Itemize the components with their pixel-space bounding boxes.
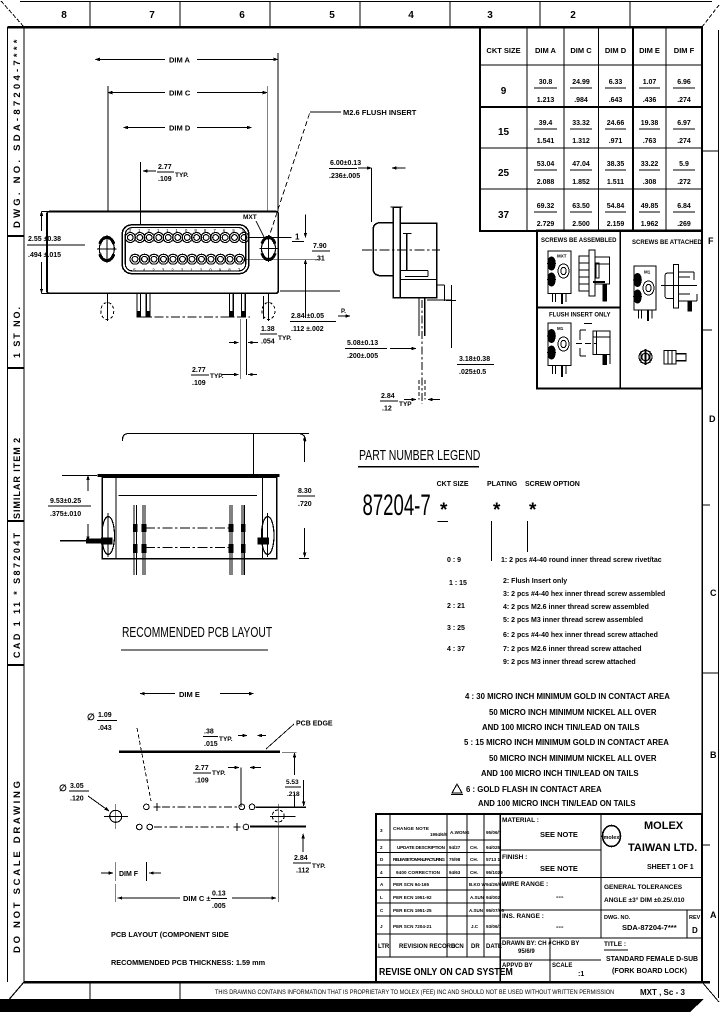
svg-text:M1: M1 <box>644 270 651 275</box>
svg-text:2.77: 2.77 <box>158 164 172 171</box>
svg-text:3.18±0.38: 3.18±0.38 <box>459 356 490 363</box>
svg-text:4: 2 pcs M2.6 inner thread scr: 4: 2 pcs M2.6 inner thread screw assembl… <box>503 604 649 611</box>
right small vertical dim <box>282 751 297 753</box>
svg-text:A: A <box>710 910 717 920</box>
screw option panels frame <box>537 231 702 389</box>
svg-text:2 : 21: 2 : 21 <box>447 603 465 610</box>
svg-text:MXT , Sc - 3: MXT , Sc - 3 <box>640 988 685 997</box>
svg-text:87204-7: 87204-7 <box>363 489 431 523</box>
svg-text:.120: .120 <box>70 796 84 803</box>
table header <box>486 46 694 55</box>
ins range box <box>500 937 702 939</box>
svg-text:47.04: 47.04 <box>572 161 590 168</box>
svg-text:B.KO W: B.KO W <box>469 882 487 887</box>
svg-text:.054: .054 <box>261 339 275 346</box>
svg-text:∅: ∅ <box>59 783 67 793</box>
svg-text:2.500: 2.500 <box>572 221 590 228</box>
title block frame <box>376 814 702 982</box>
svg-text:(FORK BOARD LOCK): (FORK BOARD LOCK) <box>612 966 688 975</box>
svg-text:1.511: 1.511 <box>607 179 624 186</box>
dim C pcb <box>115 884 117 902</box>
svg-text:.643: .643 <box>609 97 623 104</box>
bottom view body top <box>97 474 279 477</box>
svg-text:6: 6 <box>239 10 245 21</box>
right margin zone letters <box>708 236 717 920</box>
left mounting hole <box>97 235 117 263</box>
svg-text:DIM F: DIM F <box>674 46 695 55</box>
svg-text:F: F <box>708 236 714 246</box>
svg-text:DRAWN BY: CH #: DRAWN BY: CH # <box>502 941 552 947</box>
svg-text:8.30: 8.30 <box>298 488 312 495</box>
svg-text:2.088: 2.088 <box>537 179 555 186</box>
svg-text:PER ECN 1951-25: PER ECN 1951-25 <box>393 908 432 913</box>
svg-text:2: 2 <box>570 10 576 21</box>
svg-text:24.66: 24.66 <box>607 120 625 127</box>
right screw <box>261 517 274 555</box>
svg-text:.109: .109 <box>158 176 172 183</box>
svg-text:molex: molex <box>604 835 621 841</box>
bottom-right corner diagonal <box>702 982 719 1002</box>
svg-text:LTR: LTR <box>378 944 390 950</box>
revision table columns <box>390 814 500 982</box>
svg-text:DIM C: DIM C <box>570 46 592 55</box>
svg-text:A.SUN: A.SUN <box>470 895 484 900</box>
svg-text:APPVD BY: APPVD BY <box>502 963 533 969</box>
bottom black bar <box>0 999 704 1012</box>
svg-text:A.WONG: A.WONG <box>450 830 470 835</box>
fig flush insert side view <box>576 324 610 365</box>
bottom view center lines <box>145 527 232 529</box>
svg-text:STANDARD FEMALE D-SUB: STANDARD FEMALE D-SUB <box>606 954 698 963</box>
svg-text:DWG. NO.: DWG. NO. <box>604 915 631 921</box>
svg-text:.494 ±.015: .494 ±.015 <box>28 252 61 259</box>
svg-text:25: 25 <box>498 168 510 179</box>
right mounting hole <box>260 235 278 262</box>
svg-text:---: --- <box>556 922 564 931</box>
svg-text:L: L <box>380 895 383 900</box>
table row lines <box>480 64 702 66</box>
side view center line <box>362 249 440 251</box>
top-left corner diagonal <box>1 1 24 27</box>
top-right corner diagonal <box>702 5 719 27</box>
svg-text:TYP.: TYP. <box>210 373 224 380</box>
svg-text:2.77: 2.77 <box>192 367 206 374</box>
svg-text:1.07: 1.07 <box>643 79 657 86</box>
board lock lug <box>444 285 446 301</box>
svg-text:*: * <box>529 500 537 521</box>
dim E <box>140 693 175 695</box>
left margin section dividers <box>8 236 25 665</box>
side view contact <box>403 233 412 235</box>
svg-text:542322120987: 542322120987 <box>133 268 247 273</box>
svg-text:TYP.: TYP. <box>312 863 326 870</box>
svg-text:DO NOT SCALE DRAWING: DO NOT SCALE DRAWING <box>12 780 23 953</box>
svg-text:DIM C ±: DIM C ± <box>183 894 210 903</box>
svg-text:4 : 30 MICRO INCH MINIMUM GOLD: 4 : 30 MICRO INCH MINIMUM GOLD IN CONTAC… <box>465 692 670 701</box>
contacts row 1 <box>125 233 249 243</box>
svg-text:MXT: MXT <box>557 254 567 259</box>
svg-text:95/6/9: 95/6/9 <box>518 949 535 955</box>
bottom view body <box>102 477 276 559</box>
svg-text:3.05: 3.05 <box>70 783 84 790</box>
svg-text:SHEET 1 OF 1: SHEET 1 OF 1 <box>647 864 694 871</box>
svg-text:.984: .984 <box>574 97 588 104</box>
dim F <box>115 862 117 881</box>
finish box <box>500 877 702 879</box>
svg-text:7: 2 pcs M2.6 inner thread scr: 7: 2 pcs M2.6 inner thread screw attache… <box>503 646 642 653</box>
svg-text:0.13: 0.13 <box>212 891 226 898</box>
fig assembled end view <box>548 251 571 304</box>
svg-text:TYP.: TYP. <box>212 770 226 777</box>
svg-text:7.90: 7.90 <box>313 243 327 250</box>
svg-text:1994/6/9: 1994/6/9 <box>430 832 448 837</box>
svg-text:2.84 ±0.05: 2.84 ±0.05 <box>291 313 324 320</box>
DIM C dimension <box>108 92 165 94</box>
svg-text:19.38: 19.38 <box>641 120 659 127</box>
svg-text:.043: .043 <box>98 725 112 732</box>
dwg no box <box>686 910 688 938</box>
svg-text:.112: .112 <box>296 868 309 875</box>
svg-text:7: 7 <box>149 10 155 21</box>
svg-text:1 ST NO.: 1 ST NO. <box>12 306 22 358</box>
fig assembled side view <box>579 250 610 301</box>
svg-text:SCREWS BE ASSEMBLED: SCREWS BE ASSEMBLED <box>541 238 617 244</box>
svg-text:2.729: 2.729 <box>537 221 555 228</box>
svg-text:D: D <box>709 414 716 424</box>
svg-text:.272: .272 <box>677 179 691 186</box>
center line through pins <box>138 316 250 318</box>
svg-text:TYP.: TYP. <box>175 172 189 179</box>
revision rows text <box>380 826 504 929</box>
svg-text:RECOMMENDED PCB THICKNESS: 1.5: RECOMMENDED PCB THICKNESS: 1.59 mm <box>111 958 266 967</box>
svg-text:TYP.: TYP. <box>278 335 292 342</box>
svg-text:DIM D: DIM D <box>169 124 191 133</box>
dim 1.38 typ <box>239 319 241 347</box>
svg-text:.112 ±.002: .112 ±.002 <box>291 326 324 333</box>
svg-text:1: 1 <box>295 233 300 242</box>
svg-text:M2.6 FLUSH INSERT: M2.6 FLUSH INSERT <box>343 108 417 117</box>
svg-text:2.55 ±0.38: 2.55 ±0.38 <box>28 236 61 243</box>
dim 2.77 typ upper <box>140 162 142 225</box>
svg-text:.109: .109 <box>192 380 206 387</box>
svg-text:95/06/7: 95/06/7 <box>486 830 502 835</box>
svg-text:AND 100 MICRO INCH TIN/LEAD ON: AND 100 MICRO INCH TIN/LEAD ON TAILS <box>478 799 636 808</box>
svg-text:6.00±0.13: 6.00±0.13 <box>330 160 361 167</box>
svg-text:SEE NOTE: SEE NOTE <box>540 864 578 873</box>
pins below flange <box>137 293 245 317</box>
svg-text:DIM E: DIM E <box>639 46 660 55</box>
svg-text:33.32: 33.32 <box>572 120 590 127</box>
svg-text:1.213: 1.213 <box>537 97 555 104</box>
svg-text:SDA-87204-7***: SDA-87204-7*** <box>622 923 677 932</box>
svg-text:THIS DRAWING CONTAINS INFORMAT: THIS DRAWING CONTAINS INFORMATION THAT I… <box>215 990 614 996</box>
svg-text:.218: .218 <box>287 791 300 798</box>
top zone numbers <box>61 10 576 21</box>
svg-text:DIM F: DIM F <box>119 871 139 878</box>
bottom view pins <box>134 505 244 575</box>
svg-text:6: 2 pcs #4-40 hex inner threa: 6: 2 pcs #4-40 hex inner thread screw at… <box>503 632 658 639</box>
svg-text:CHANGE NOTE: CHANGE NOTE <box>393 826 429 831</box>
svg-text:PLATING: PLATING <box>487 481 518 488</box>
svg-text:PER SCN 94-165: PER SCN 94-165 <box>393 882 429 887</box>
svg-text:TYP: TYP <box>399 401 412 408</box>
svg-text:6 : GOLD FLASH IN CONTACT AREA: 6 : GOLD FLASH IN CONTACT AREA <box>466 785 602 794</box>
svg-text:2: Flush Insert only: 2: Flush Insert only <box>503 578 567 585</box>
fig flush insert end view <box>548 323 571 377</box>
svg-text:CKT SIZE: CKT SIZE <box>437 481 469 488</box>
table row 37 <box>498 203 691 228</box>
svg-text:MXT: MXT <box>243 214 257 221</box>
mating face bracket <box>123 434 306 442</box>
svg-text:2.159: 2.159 <box>607 221 625 228</box>
svg-text:SCREWS BE ATTACHED: SCREWS BE ATTACHED <box>632 240 703 246</box>
svg-text:50 MICRO INCH MINIMUM NICKEL A: 50 MICRO INCH MINIMUM NICKEL ALL OVER <box>489 708 657 717</box>
svg-text:6.97: 6.97 <box>677 120 691 127</box>
svg-text:3121110987654: 3121110987654 <box>129 228 252 233</box>
svg-text:2: 2 <box>380 845 383 850</box>
pcb edge line <box>119 751 280 753</box>
svg-text:.005: .005 <box>212 903 226 910</box>
dim 2.84 front <box>280 290 340 292</box>
svg-text:DIM D: DIM D <box>605 46 627 55</box>
svg-text:FINISH :: FINISH : <box>502 854 527 861</box>
svg-text:DR: DR <box>471 944 480 950</box>
svg-text:.269: .269 <box>677 221 691 228</box>
svg-text:SCREW OPTION: SCREW OPTION <box>525 481 580 488</box>
svg-text:.375±.010: .375±.010 <box>50 511 81 518</box>
table row 15 <box>498 120 691 145</box>
left mounting hole pcb <box>110 810 122 822</box>
svg-text:CHKD BY: CHKD BY <box>552 941 579 947</box>
hidden screws below mounting holes <box>101 293 275 321</box>
sheet border frame <box>7 27 9 982</box>
material box <box>500 849 601 851</box>
svg-text:SIMILAR ITEM 2: SIMILAR ITEM 2 <box>12 437 22 519</box>
svg-text:50 MICRO INCH MINIMUM NICKEL A: 50 MICRO INCH MINIMUM NICKEL ALL OVER <box>489 754 657 763</box>
svg-text:1.962: 1.962 <box>641 221 659 228</box>
svg-text:J: J <box>380 924 383 929</box>
svg-text:B: B <box>710 750 717 760</box>
small screw front <box>639 349 652 365</box>
svg-text:INS. RANGE :: INS. RANGE : <box>502 913 544 920</box>
side view flange plate <box>393 207 400 298</box>
dim 8.30 <box>299 433 309 435</box>
svg-text:9400 CORRECTION: 9400 CORRECTION <box>396 870 441 875</box>
ckt size list <box>447 557 467 653</box>
dim 2.84 typ pcb <box>302 834 304 852</box>
svg-text:C: C <box>710 588 717 598</box>
svg-text:3: 3 <box>487 10 493 21</box>
svg-text:2.84: 2.84 <box>381 393 395 400</box>
svg-text:5.08±0.13: 5.08±0.13 <box>347 340 378 347</box>
svg-text:CH.: CH. <box>470 870 478 875</box>
svg-text:TITLE :: TITLE : <box>604 941 626 948</box>
svg-text:33.22: 33.22 <box>641 161 659 168</box>
svg-text:3 : 25: 3 : 25 <box>447 625 465 632</box>
svg-text:DIM A: DIM A <box>535 46 557 55</box>
svg-text:PCB LAYOUT (COMPONENT SIDE: PCB LAYOUT (COMPONENT SIDE <box>111 930 229 939</box>
svg-text:MATERIAL :: MATERIAL : <box>502 817 539 824</box>
svg-text:.38: .38 <box>204 729 214 736</box>
DIM D dimension <box>123 127 165 129</box>
svg-text:CH.: CH. <box>470 857 478 862</box>
svg-text:CKT SIZE: CKT SIZE <box>486 46 520 55</box>
svg-text:93/06/1: 93/06/1 <box>486 924 502 929</box>
svg-text:63.50: 63.50 <box>572 203 590 210</box>
svg-text:49.85: 49.85 <box>641 203 659 210</box>
DIM A right extension line <box>277 53 279 212</box>
svg-text:1.38: 1.38 <box>261 326 275 333</box>
dim 2.77 typ lower <box>239 345 241 379</box>
svg-text:.200±.005: .200±.005 <box>347 353 378 360</box>
dimension table frame <box>480 27 702 231</box>
side view pin <box>418 298 420 337</box>
svg-text:6.96: 6.96 <box>677 79 691 86</box>
svg-text:MOLEX: MOLEX <box>644 820 684 832</box>
svg-text:DATE: DATE <box>486 944 502 950</box>
svg-text:.015: .015 <box>204 741 218 748</box>
contact 1 flag <box>249 236 292 238</box>
svg-text:0 : 9: 0 : 9 <box>447 557 461 564</box>
svg-text::1: :1 <box>578 971 584 978</box>
right mounting hole pcb <box>272 810 284 822</box>
svg-text:GENERAL TOLERANCES: GENERAL TOLERANCES <box>604 884 683 891</box>
svg-text:1.541: 1.541 <box>537 138 555 145</box>
svg-text:A.SUN: A.SUN <box>469 908 483 913</box>
svg-text:30.8: 30.8 <box>539 79 553 86</box>
table row 9 <box>501 79 691 104</box>
svg-text:5713 1: 5713 1 <box>486 857 500 862</box>
screw option list <box>501 557 665 666</box>
left screw <box>102 517 115 555</box>
svg-text:.31: .31 <box>315 256 325 263</box>
svg-text:*: * <box>493 500 501 521</box>
note triangle flag <box>452 784 462 793</box>
svg-text:1.852: 1.852 <box>572 179 590 186</box>
plating notes <box>464 692 670 808</box>
svg-text:.720: .720 <box>298 501 312 508</box>
svg-text:DIM E: DIM E <box>179 690 200 699</box>
svg-text:5: 5 <box>329 10 335 21</box>
svg-text:---: --- <box>556 892 564 901</box>
wire range box <box>500 909 702 911</box>
svg-text:9: 2 pcs M3 inner thread screw: 9: 2 pcs M3 inner thread screw attached <box>503 659 636 666</box>
side view body <box>400 223 436 297</box>
svg-text:1.09: 1.09 <box>98 712 112 719</box>
svg-text:94/27: 94/27 <box>449 845 461 850</box>
svg-text:9.53±0.25: 9.53±0.25 <box>50 498 81 505</box>
svg-text:37: 37 <box>498 210 510 221</box>
svg-text:69.32: 69.32 <box>537 203 555 210</box>
M2.6 flush insert callout <box>268 112 310 240</box>
svg-text:RECOMMENDED PCB LAYOUT: RECOMMENDED PCB LAYOUT <box>122 624 272 640</box>
svg-text:DWG. NO. SDA-87204-7***: DWG. NO. SDA-87204-7*** <box>12 38 23 228</box>
revision table rows <box>376 840 500 957</box>
svg-text:3: 3 <box>380 828 383 833</box>
svg-text:TYP.: TYP. <box>219 736 233 743</box>
svg-text:95/1029: 95/1029 <box>486 870 503 875</box>
contacts row 2 <box>130 254 245 264</box>
svg-text:.274: .274 <box>677 138 691 145</box>
drawn by box <box>500 959 601 961</box>
svg-text:.025±0.5: .025±0.5 <box>459 369 486 376</box>
svg-text:9: 9 <box>501 86 507 97</box>
svg-text:4: 4 <box>408 10 414 21</box>
svg-text:.109: .109 <box>195 778 209 785</box>
svg-text:75/98: 75/98 <box>449 857 461 862</box>
svg-text:J.C: J.C <box>471 924 479 929</box>
fig attached side view <box>661 265 697 312</box>
dim 3.18 <box>427 299 452 301</box>
svg-text:.436: .436 <box>643 97 657 104</box>
svg-text:UPDATE DESCRIPTION: UPDATE DESCRIPTION <box>397 845 446 850</box>
svg-text:PER SCN 7204-21: PER SCN 7204-21 <box>393 924 432 929</box>
svg-text:4 : 37: 4 : 37 <box>447 646 465 653</box>
svg-text:1 : 15: 1 : 15 <box>449 580 467 587</box>
svg-text:D: D <box>692 926 698 935</box>
svg-text:∅: ∅ <box>87 712 95 722</box>
svg-text:1.312: 1.312 <box>572 138 590 145</box>
svg-text:DIM A: DIM A <box>169 56 191 65</box>
svg-text:8: 8 <box>61 10 67 21</box>
svg-text:PART NUMBER LEGEND: PART NUMBER LEGEND <box>359 446 480 463</box>
DIM A dimension <box>95 58 165 60</box>
top border strip line <box>20 1 712 3</box>
molex logo box <box>600 814 602 938</box>
svg-text:SCALE: SCALE <box>552 963 572 969</box>
svg-text:6.84: 6.84 <box>677 203 691 210</box>
svg-text:5.9: 5.9 <box>679 161 689 168</box>
svg-text:M1: M1 <box>557 326 564 331</box>
svg-text:*: * <box>440 500 448 521</box>
svg-text:3: 2 pcs #4-40 hex inner threa: 3: 2 pcs #4-40 hex inner thread screw as… <box>503 591 665 598</box>
front view flange <box>47 212 278 294</box>
svg-text:ANGLE ±3° DIM ±0.25/.010: ANGLE ±3° DIM ±0.25/.010 <box>604 896 685 904</box>
fig attached end view <box>634 266 656 321</box>
svg-text:AND 100 MICRO INCH TIN/LEAD ON: AND 100 MICRO INCH TIN/LEAD ON TAILS <box>481 769 639 778</box>
svg-text:P.: P. <box>341 309 346 315</box>
svg-text:54.84: 54.84 <box>607 203 625 210</box>
svg-text:2.84: 2.84 <box>294 855 308 862</box>
svg-text:REV: REV <box>689 915 701 921</box>
table row 25 <box>498 161 691 186</box>
svg-text:2.77: 2.77 <box>195 765 209 772</box>
svg-text:.12: .12 <box>382 406 392 413</box>
svg-text:FLUSH INSERT ONLY: FLUSH INSERT ONLY <box>549 313 610 319</box>
svg-text:.274: .274 <box>677 97 691 104</box>
svg-text:WIRE RANGE :: WIRE RANGE : <box>502 881 548 888</box>
svg-text:53.04: 53.04 <box>537 161 555 168</box>
top strip dividers <box>90 2 630 27</box>
dim 9.53 <box>62 475 97 477</box>
pin hole row 2 <box>137 824 143 830</box>
svg-text:PER ECN 1951-92: PER ECN 1951-92 <box>393 895 432 900</box>
svg-text:5.53: 5.53 <box>286 779 299 786</box>
svg-text:SEE NOTE: SEE NOTE <box>540 830 578 839</box>
svg-text:TAIWAN LTD.: TAIWAN LTD. <box>628 842 697 854</box>
svg-text:6.33: 6.33 <box>609 79 623 86</box>
svg-text:.971: .971 <box>609 138 623 145</box>
svg-text:38.35: 38.35 <box>607 161 625 168</box>
svg-text:CAD 1 11 * S87204T: CAD 1 11 * S87204T <box>12 532 22 658</box>
svg-text:5 : 15 MICRO INCH MINIMUM GOLD: 5 : 15 MICRO INCH MINIMUM GOLD IN CONTAC… <box>464 738 669 747</box>
right margin zone ticks <box>702 151 719 845</box>
bottom-left corner diagonal <box>0 982 24 1010</box>
svg-text:DIM C: DIM C <box>169 89 191 98</box>
dim 2.84 typ side <box>404 399 416 401</box>
svg-text:AND 100 MICRO INCH TIN/LEAD ON: AND 100 MICRO INCH TIN/LEAD ON TAILS <box>482 723 640 732</box>
svg-text:REVISE ONLY ON CAD SYSTEM: REVISE ONLY ON CAD SYSTEM <box>379 965 513 977</box>
